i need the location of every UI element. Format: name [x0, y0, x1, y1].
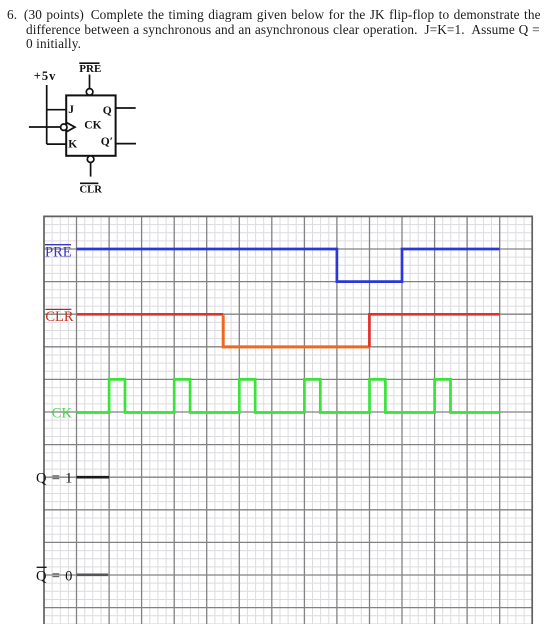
node Qbar label: Q&#773; = 0	[36, 567, 73, 584]
bubble: PRE active-low input	[86, 89, 93, 96]
+5v supply label	[34, 69, 57, 83]
Q waveform initial segment (black)	[77, 476, 110, 479]
CLR waveform trace high given (red)	[77, 313, 224, 316]
CLR label (active-low, overline)	[80, 183, 103, 195]
pin label Q	[103, 105, 112, 117]
bubble: inverted clock	[61, 124, 67, 130]
svg-text:Q: Q	[103, 105, 112, 117]
svg-text:CLR: CLR	[80, 184, 103, 195]
Qbar waveform initial segment (gray)	[77, 573, 109, 576]
wire: branch to J input	[47, 109, 66, 111]
node Q label: Q = 1	[36, 470, 73, 486]
timing grid major lines	[44, 216, 532, 624]
timing grid border	[44, 216, 532, 624]
edge-trigger wedge on CK pin	[66, 122, 75, 131]
svg-text:CLR: CLR	[45, 309, 74, 325]
pin label Q'	[101, 136, 113, 148]
svg-text:J: J	[68, 104, 74, 116]
svg-text:CK: CK	[84, 120, 101, 132]
wire: clock input	[29, 126, 61, 128]
svg-text:Q′: Q′	[101, 136, 113, 148]
wire: Q' output	[116, 143, 136, 145]
wire: +5v vertical rail	[46, 85, 48, 144]
wire: PRE vertical lead	[89, 75, 91, 89]
flip-flop U1 body	[66, 95, 115, 155]
pin label J	[68, 104, 74, 116]
svg-text:K: K	[68, 138, 77, 150]
PRE label (active-low, overline)	[79, 63, 101, 75]
timing grid minor lines	[44, 216, 532, 624]
node CK label (green)	[52, 406, 73, 422]
node CLR label (red, overline)	[45, 309, 74, 325]
CLR waveform trace low pulse (orange)	[223, 315, 369, 347]
wire: Q output	[116, 107, 136, 109]
svg-text:Q = 0: Q = 0	[36, 568, 73, 584]
wire: branch to K input	[47, 143, 66, 145]
bubble: CLR active-low input	[87, 156, 94, 163]
CK clock waveform trace (green)	[77, 379, 500, 412]
svg-text:CK: CK	[52, 406, 73, 422]
CLR waveform trace return high (red)	[369, 314, 499, 347]
wire: CLR vertical lead	[90, 163, 92, 177]
svg-text:+5v: +5v	[34, 69, 57, 83]
node PRE label (blue, overline)	[45, 245, 72, 261]
PRE waveform trace (blue)	[77, 249, 500, 282]
svg-text:PRE: PRE	[79, 63, 101, 75]
pin label K	[68, 138, 77, 150]
pin label CK	[84, 120, 101, 132]
svg-text:Q = 1: Q = 1	[36, 470, 73, 486]
svg-text:PRE: PRE	[45, 245, 72, 261]
